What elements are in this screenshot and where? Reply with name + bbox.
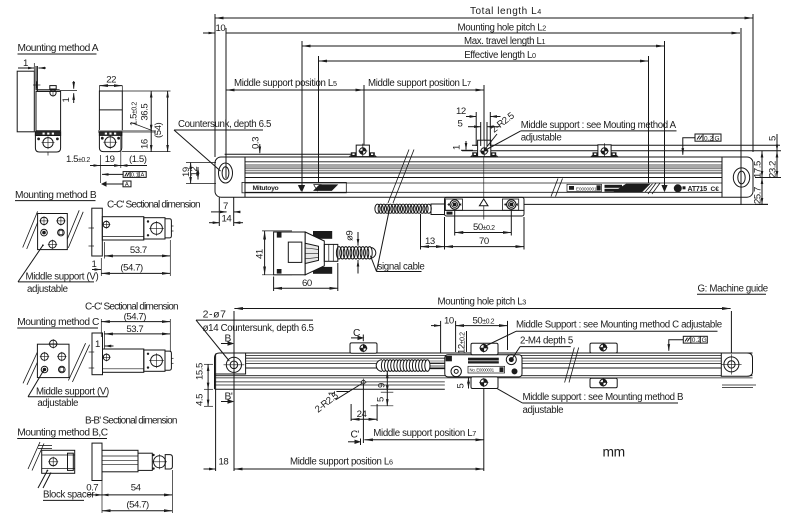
svg-text:Countersunk, depth 6.5: Countersunk, depth 6.5 [178,119,271,130]
C-C' section 1: mounting plate [89,208,103,256]
svg-text:G: Machine guide: G: Machine guide [698,284,768,295]
method B,C: guide rail [28,442,52,471]
bottom reading head (plan view) [445,355,522,377]
note Middle support see Mounting method B adjustable [498,389,684,416]
B-B' section: dims 0.7 / 54 / (54.7) [86,470,172,513]
svg-text:36.5: 36.5 [140,104,151,121]
dimension 5 (bracket offset) [456,377,469,389]
svg-text:(1.5): (1.5) [129,154,147,165]
svg-text:15.5: 15.5 [195,363,206,380]
svg-text:12: 12 [189,167,200,177]
C-C' section 1: scale body [102,217,144,240]
section mark C' [348,430,361,446]
middle support bracket pair at right (bottom view) [590,343,617,388]
label strip with logos [242,182,719,194]
title Mounting method C [17,317,99,328]
svg-text:Mounting method A: Mounting method A [18,43,99,54]
right end mounting hole (oval countersunk) [733,168,749,187]
dimension Max. travel length L1 [302,36,665,47]
svg-text:1: 1 [452,145,463,150]
note Countersunk depth 6.5 [174,119,271,171]
note 2-M4 depth 5 [512,336,573,360]
dimension Middle support position L7 (bottom) [363,384,483,471]
svg-text:41: 41 [255,249,266,259]
B-B' section: scale body [102,450,138,472]
scale body (side view) [215,157,753,197]
svg-text:G: G [715,135,720,142]
dimension ø9 (cable) [345,231,359,274]
svg-text:0.1: 0.1 [131,173,139,179]
dimension Effective length L0 [319,50,649,61]
C-C' section 2: scale body [102,349,143,372]
svg-text:10: 10 [216,23,226,34]
svg-text:Mounting hole pitch L2: Mounting hole pitch L2 [458,23,547,34]
svg-text:adjustable: adjustable [27,284,68,295]
bottom scale body (plan view) [215,353,757,389]
svg-text:adjustable: adjustable [521,133,562,144]
method C: guide rails [23,343,90,385]
svg-text:1.5±0.2: 1.5±0.2 [129,102,140,126]
svg-text:Middle support position L7: Middle support position L7 [373,428,476,439]
svg-text:Effective length L0: Effective length L0 [464,50,536,61]
svg-text:Mounting hole pitch L3: Mounting hole pitch L3 [438,297,527,308]
svg-text:4.5: 4.5 [195,394,206,406]
svg-text:Middle support : see Mouting m: Middle support : see Mouting method A [521,120,677,131]
svg-text:G: G [702,337,707,344]
svg-text:19: 19 [105,154,115,165]
break lines (bottom view) [565,348,579,383]
svg-text:50±0.2: 50±0.2 [473,316,495,327]
note Middle support see Mouting method A adjustable [487,120,677,150]
middle support clamp (left, at L5) [348,144,377,158]
method C: support plate [37,339,69,378]
svg-text:1: 1 [23,58,28,69]
method A: scale cross-section [36,91,61,130]
svg-text:70: 70 [479,236,489,247]
parallelism tolerance frame 0.1 A [102,172,146,179]
svg-text:5: 5 [768,136,779,141]
method A cross-section: right dims 1.5±0.2 36.5 (54) 16 [122,91,171,152]
svg-text:No. E0000001: No. E0000001 [470,368,495,373]
method A cross-section: bottom dims 1.5±0.2 19 (1.5) [66,135,147,183]
svg-text:2-R2.5: 2-R2.5 [489,111,516,136]
dimension 0.3 (gap above scale) [251,137,262,153]
svg-text:2-ø7: 2-ø7 [203,309,227,321]
svg-text:9: 9 [377,383,388,388]
svg-text:(54.7): (54.7) [126,500,149,511]
svg-text:23.2: 23.2 [768,161,779,178]
method A cross-section: reading head [99,132,121,152]
method B,C: scale with block spacer [42,450,75,473]
svg-text:B-B' Sectional dimension: B-B' Sectional dimension [85,416,177,427]
dimension Middle support position L5 [226,78,364,90]
scale bottom reference line (right of head) [524,203,768,205]
parallelism tolerance frame 0.2 G (top drawing) [683,134,721,155]
note 2-R2.5 (bottom) [313,384,362,416]
middle support bracket at section C (bottom view) [350,343,377,353]
machine guide lines (right) [462,145,781,150]
left end dims 7 / 14 below block [209,197,243,226]
C-C' section 2: dims (54.7) / 53.7 / 1 [95,312,170,353]
svg-text:2-M4 depth 5: 2-M4 depth 5 [520,336,573,347]
dimension Mounting hole pitch L3 [234,297,731,374]
svg-text:C€: C€ [711,186,720,193]
svg-text:Middle support position L7: Middle support position L7 [368,78,471,89]
method B: note Middle support (V) adjustable [18,244,98,295]
svg-text:0.2: 0.2 [692,337,701,344]
svg-text:Max. travel length L1: Max. travel length L1 [464,36,546,47]
dimension 60 (connector width) [274,263,338,291]
svg-text:16: 16 [140,139,151,149]
svg-text:24: 24 [357,409,368,420]
parallelism tolerance frame 0.2 G (bottom drawing) [669,336,708,351]
method B: support plate [38,214,68,250]
reading head (side view) [445,158,525,220]
note 2-ø7 / ø14 countersunk [196,309,314,362]
extension lines for top dimensions [215,14,753,205]
C-C' section 1: dims 53.7 / (54.7) / 1 [92,240,171,276]
section mark C [351,328,364,341]
method A: machine wall [17,71,34,132]
svg-text:Mitutoyo: Mitutoyo [253,185,279,192]
dimension Mounting hole pitch L2 [203,23,740,34]
svg-text:7: 7 [223,201,228,212]
svg-text:5: 5 [458,119,463,130]
svg-text:(54.7): (54.7) [124,312,147,323]
dimension 50±0.2 (head bolts) [455,211,512,236]
svg-text:14: 14 [222,214,233,225]
C-C' section 2: mounting plate [89,333,103,375]
svg-text:0.2: 0.2 [704,135,713,142]
dimension Middle support position L6 [234,457,484,470]
break lines on top scale [388,150,563,204]
section mark B [221,334,234,346]
dimension 41 (connector height) [255,231,293,275]
svg-text:ø14 Countersunk, depth 6.5: ø14 Countersunk, depth 6.5 [203,323,314,334]
svg-text:Middle support (V): Middle support (V) [36,386,109,397]
method A cross-section: scale body [99,91,122,131]
2-R2.5 hole (bottom rail) [360,379,367,386]
C-C' section 1: reading head [144,218,174,239]
svg-text:ø9: ø9 [345,231,356,241]
bottom cable coil [376,360,445,372]
svg-text:Middle support (V): Middle support (V) [26,272,99,283]
svg-text:53.7: 53.7 [130,245,147,256]
note Middle Support see Mounting method C adjustable [485,320,722,347]
connector cable coil [336,247,375,259]
svg-text:C': C' [351,430,360,441]
dimension 18 [204,311,235,471]
datum A box [101,181,131,188]
machine mounting surface line (left) [225,153,356,155]
method A: reading head [35,132,60,156]
note signal cable [370,209,424,273]
B-B' section: reading head [138,453,172,470]
svg-text:1.5±0.2: 1.5±0.2 [66,154,90,165]
svg-text:53.7: 53.7 [126,324,143,335]
svg-text:Middle support position L5: Middle support position L5 [234,78,337,89]
head cable attach + coil [375,204,445,215]
svg-text:25.7: 25.7 [753,187,764,204]
svg-text:E0000001: E0000001 [576,187,597,192]
svg-text:adjustable: adjustable [523,405,564,416]
svg-text:C-C' Sectional dimension: C-C' Sectional dimension [107,200,200,211]
svg-text:Mounting method C: Mounting method C [17,317,99,328]
method A: dimension 1 (top) [18,58,46,71]
svg-text:adjustable: adjustable [37,398,78,409]
left end mounting hole (oval countersunk) [219,163,233,183]
right end dimensions 5 / 17.5 / 23.2 / 25.7 [753,134,782,204]
svg-text:mm: mm [603,445,625,460]
svg-text:1: 1 [61,98,72,103]
bottom left mounting pad + hole [215,353,246,375]
note G: Machine guide [697,284,768,295]
svg-text:1: 1 [92,259,97,270]
title Mounting method A [18,43,99,54]
method A: L bracket [33,66,60,91]
svg-text:A: A [125,182,129,188]
svg-text:60: 60 [302,278,312,289]
dimension 24 (bracket width) [351,404,377,421]
section mark B' [221,392,234,404]
svg-text:Middle support : see Mounting: Middle support : see Mounting method B [523,392,684,403]
svg-text:Middle Support : see Mounting: Middle Support : see Mounting method C a… [516,320,722,331]
svg-text:22: 22 [106,75,116,86]
method B,C: note Block spacer [38,470,95,501]
svg-text:18: 18 [219,457,229,468]
svg-text:12: 12 [456,106,466,117]
dimension Middle support position L7 (top drawing) [364,78,484,90]
svg-text:signal cable: signal cable [378,262,425,273]
dimensions 9 / 5 (cable height, bottom view) [371,372,394,406]
svg-text:0.7: 0.7 [86,483,98,494]
svg-text:13: 13 [425,236,435,247]
middle support clamp (right) [590,143,619,157]
method A cross-section: dimension 22 [99,75,122,92]
svg-text:12±0.2: 12±0.2 [457,332,468,354]
C-C' section 2: reading head [144,350,174,371]
svg-text:Mounting method B: Mounting method B [15,190,97,201]
svg-text:50±0.2: 50±0.2 [473,222,495,233]
svg-text:Total length L4: Total length L4 [470,6,541,17]
method B: guide rails [23,210,83,249]
svg-text:5: 5 [456,384,467,389]
head clamp bolts [446,199,463,210]
method A: clamp bolt [50,86,56,97]
left end dims 19 / 12 (rotated) [181,163,216,184]
svg-text:1: 1 [95,339,100,350]
B-B' section: mounting plate [92,443,102,480]
dimension 1 (hole offset) [327,391,350,396]
title Mounting method B,C [17,428,108,439]
dimensions 10 / 50±0.2 (bottom head) [431,316,508,355]
middle support clamp (dimensioned, at L7) [470,139,499,158]
thick machine surface line [98,130,156,133]
D-sub connector body [274,231,338,275]
title Mounting method B [15,190,97,201]
dimensions 13 / 70 below head [421,214,525,250]
svg-text:5: 5 [376,397,387,402]
bottom head middle support bracket (bottom) [471,377,498,389]
svg-text:A: A [141,173,145,179]
svg-text:Middle support position L6: Middle support position L6 [290,457,393,468]
bottom right end block + hole [721,353,752,376]
method C: note Middle support (V) adjustable [28,371,109,409]
dimensions 15.5 / 4.5 (left edge, bottom view) [195,363,214,406]
svg-text:(54): (54) [153,122,164,138]
svg-text:17.5: 17.5 [753,161,764,178]
bottom head middle support bracket (top) [471,343,498,355]
svg-text:1: 1 [327,391,338,396]
dimension 10 (left offset) [216,23,226,34]
svg-text:(54.7): (54.7) [120,263,143,274]
svg-text:10: 10 [444,316,454,327]
svg-text:Mounting method B,C: Mounting method B,C [17,428,108,439]
dimension Total length L4 [215,6,753,18]
svg-text:54: 54 [131,483,142,494]
method A: dimension 1 (right) [60,81,77,103]
clamp detail dims 12 / 5 / 1 / 2-R2.5 [452,106,517,150]
